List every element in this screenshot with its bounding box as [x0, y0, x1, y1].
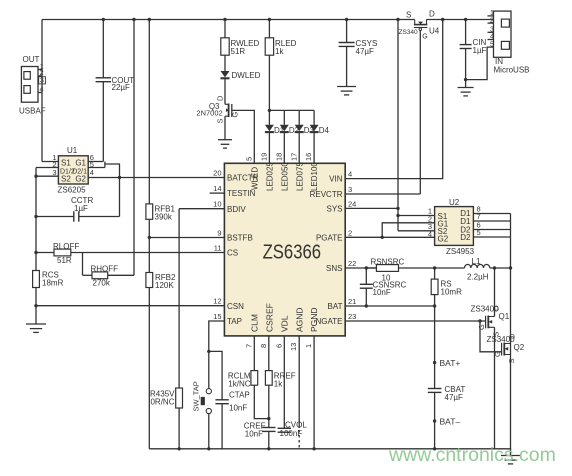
- switch SW_TAP: [206, 389, 211, 394]
- wire SW_TAP to bottom rail: [208, 414, 210, 449]
- resistor RSNSRC 10: [376, 265, 398, 272]
- pin 23 NGATE wire: [345, 320, 486, 322]
- wire top rail right of U4: [427, 19, 494, 21]
- svg-text:2N7002: 2N7002: [196, 109, 222, 118]
- svg-text:21: 21: [348, 297, 356, 306]
- svg-text:2.2µH: 2.2µH: [467, 273, 489, 282]
- connector MicroUSB IN: [494, 11, 512, 57]
- svg-text:AGND: AGND: [294, 307, 304, 332]
- node rail-RLED: [268, 18, 271, 21]
- svg-text:SNS: SNS: [326, 264, 342, 273]
- wire RFB1 to RFB2: [148, 219, 150, 272]
- wire LED bus drop D4: [313, 110, 315, 124]
- node BAT-: [433, 419, 436, 422]
- wire D2 to chip pin: [283, 132, 285, 163]
- wire U1 pin1 to USB line: [42, 161, 58, 163]
- resistor R435V 0R/NC: [176, 388, 183, 408]
- capacitor CSNSRC 10nF: [365, 268, 367, 284]
- resistor RCLM 1k/NC: [251, 371, 258, 386]
- node rail-CIN: [464, 18, 467, 21]
- pin 14 TESTIN stub: [210, 192, 225, 194]
- node U2 pin1 junction: [396, 214, 399, 217]
- wire U2 drains vertical: [510, 214, 512, 449]
- ground Q3: [218, 139, 232, 141]
- node NGATE junction: [478, 319, 481, 322]
- svg-text:10nF: 10nF: [245, 429, 263, 438]
- wire gate branch to CCTR: [105, 164, 120, 217]
- svg-text:D: D: [216, 95, 225, 101]
- svg-text:19: 19: [260, 153, 269, 161]
- pin 4 MicroUSB: [488, 39, 494, 41]
- svg-text:16: 16: [304, 153, 313, 161]
- wire NGATE down to Q2 gate: [480, 321, 502, 352]
- wire LED bus drop D3: [298, 110, 300, 124]
- node CSNSRC tap: [365, 266, 368, 269]
- capacitor CBAT 47uF: [428, 388, 442, 390]
- svg-text:BAT–: BAT–: [440, 417, 461, 427]
- node SYS junction: [396, 207, 399, 210]
- svg-text:ZS6366: ZS6366: [263, 241, 322, 264]
- dual-pmos U2 ZS4953: [435, 207, 474, 246]
- dual-mosfet U1 ZS6205: [58, 156, 88, 184]
- wire COUT to U1 pin6: [102, 82, 104, 162]
- svg-text:BAT: BAT: [328, 302, 343, 311]
- pin 22 SNS wire: [345, 267, 376, 269]
- svg-text:5: 5: [244, 157, 253, 161]
- svg-text:WLED: WLED: [251, 167, 260, 190]
- svg-text:51R: 51R: [231, 47, 246, 56]
- svg-text:RSNSRC: RSNSRC: [371, 258, 405, 267]
- svg-text:LED050: LED050: [280, 162, 289, 191]
- pin 8 U2 wire: [473, 213, 510, 215]
- svg-text:4: 4: [428, 230, 432, 239]
- svg-text:U2: U2: [449, 198, 460, 207]
- capacitor CCTR 1uF: [73, 211, 75, 221]
- capacitor CSYS 47uF: [339, 42, 355, 44]
- svg-text:10mR: 10mR: [441, 287, 463, 296]
- wire L1 to Q1 drain node: [490, 267, 511, 269]
- svg-text:G2: G2: [75, 174, 86, 183]
- svg-text:3: 3: [348, 185, 352, 194]
- wire Q3 source to ground: [224, 116, 226, 140]
- pin 13 AGND wire: [298, 336, 300, 428]
- svg-text:D4: D4: [319, 126, 330, 135]
- svg-text:CTAP: CTAP: [229, 391, 250, 400]
- pin 10 BDIV wire: [179, 208, 224, 210]
- pin 2 USBAF: [38, 75, 42, 77]
- svg-text:G: G: [422, 34, 427, 41]
- svg-text:18: 18: [274, 153, 283, 161]
- svg-text:23: 23: [348, 312, 356, 321]
- pin 12 CSN wire: [36, 305, 224, 307]
- nmos Q1 ZS3400: [488, 317, 494, 328]
- wire Q1 source down: [494, 327, 496, 449]
- wire rail to RHOFF vertical: [133, 20, 135, 276]
- svg-text:S1: S1: [61, 158, 71, 167]
- connector USBAF OUT: [21, 67, 38, 103]
- svg-text:OUT: OUT: [23, 55, 40, 64]
- svg-text:3: 3: [490, 26, 494, 33]
- svg-text:1k: 1k: [274, 379, 283, 388]
- node rail-134: [132, 18, 135, 21]
- svg-text:13: 13: [289, 343, 298, 351]
- nmos Q2 ZS3400: [504, 344, 510, 355]
- pmos U4 ZS340x: [414, 20, 416, 25]
- wire pins5-6 tie: [104, 162, 106, 168]
- svg-text:3: 3: [52, 168, 56, 177]
- svg-text:www.cntronics.com: www.cntronics.com: [388, 444, 556, 466]
- svg-text:1k/NC: 1k/NC: [228, 379, 250, 388]
- pin 3 MicroUSB: [488, 31, 494, 33]
- svg-text:8: 8: [259, 344, 268, 348]
- wire RS bottom to BAT+: [434, 295, 436, 389]
- svg-text:2: 2: [490, 17, 494, 24]
- diode D4: [310, 125, 319, 131]
- capacitor CREF 10nF: [262, 427, 275, 429]
- wire junction to MicroUSB pin5: [466, 47, 494, 80]
- wire Q1 drain: [494, 268, 496, 317]
- pin 1 USBAF: [38, 69, 42, 71]
- node rail-SYS vertical: [396, 18, 399, 21]
- node rail-COUT: [102, 18, 105, 21]
- pin 3 USBAF: [38, 82, 42, 84]
- svg-text:47µF: 47µF: [356, 47, 375, 56]
- pin 1 U2 wire: [398, 215, 435, 217]
- svg-text:U4: U4: [429, 27, 440, 36]
- svg-text:MicroUSB: MicroUSB: [494, 66, 530, 75]
- svg-text:BAT+: BAT+: [440, 358, 461, 368]
- node BSTFB divider junction: [148, 236, 151, 239]
- svg-text:12: 12: [213, 297, 221, 306]
- pin 2 U1: [36, 167, 58, 169]
- pin 24 SYS wire: [345, 207, 398, 209]
- wire PGATE to U2 G1: [382, 223, 434, 238]
- wire RWLED to DWLED: [224, 55, 226, 71]
- pin 4 USBAF: [38, 92, 42, 94]
- svg-text:G: G: [230, 112, 239, 118]
- svg-text:390k: 390k: [155, 212, 173, 221]
- capacitor COUT 22uF: [96, 77, 111, 79]
- pin 7 U2 wire: [473, 220, 510, 222]
- svg-text:G2: G2: [438, 234, 449, 243]
- pin 6 U1: [88, 161, 103, 163]
- resistor RHOFF 270k: [92, 272, 108, 279]
- wire LED bus drop D2: [283, 110, 285, 124]
- pin 6 VDL wire to CVOL: [283, 336, 285, 428]
- svg-text:CSN: CSN: [227, 302, 244, 311]
- wire top VOUT rail: [42, 19, 415, 21]
- node LED bus: [268, 109, 271, 112]
- pin 3 REVCTR wire: [345, 193, 420, 195]
- svg-text:1: 1: [304, 344, 313, 348]
- wire RS top: [434, 268, 436, 279]
- pin 3 U1: [36, 175, 58, 177]
- svg-text:G: G: [493, 351, 502, 357]
- wire RLED to LED bus: [268, 55, 270, 110]
- wire LED bus: [269, 109, 314, 111]
- svg-text:D: D: [491, 305, 500, 311]
- svg-text:D: D: [429, 10, 435, 19]
- wire rail to CSYS: [346, 20, 348, 43]
- wire U4 gate to REVCTR: [419, 31, 421, 195]
- svg-text:LED100: LED100: [310, 162, 319, 191]
- node L1-Q1: [493, 266, 496, 269]
- svg-text:CSREF: CSREF: [265, 303, 275, 332]
- svg-text:Q1: Q1: [499, 312, 510, 321]
- svg-text:6: 6: [274, 344, 283, 348]
- resistor RFB1 390k: [146, 204, 153, 219]
- node junction G2 wire: [118, 176, 121, 179]
- svg-text:DWLED: DWLED: [232, 71, 261, 80]
- diode D3: [295, 125, 304, 131]
- wire RHOFF row: [83, 274, 93, 276]
- svg-text:24: 24: [348, 199, 356, 208]
- diode D1: [265, 125, 274, 131]
- wire rail to CIN: [465, 20, 467, 45]
- diode D2: [280, 125, 289, 131]
- pin 1 PGND wire: [313, 336, 315, 449]
- svg-text:22: 22: [348, 259, 356, 268]
- node SW_TAP bottom: [207, 447, 210, 450]
- wire CCTR row: [36, 216, 74, 218]
- capacitor CIN 1uF: [460, 44, 472, 46]
- node rail-RWLED: [223, 18, 226, 21]
- svg-text:L1: L1: [472, 257, 481, 266]
- wire D1 to chip pin: [268, 132, 270, 163]
- svg-text:CLM: CLM: [250, 314, 260, 332]
- svg-text:S: S: [406, 11, 411, 20]
- wire RCLM to CSREF line: [254, 385, 268, 418]
- svg-text:17: 17: [289, 153, 298, 161]
- svg-text:TAP: TAP: [227, 317, 242, 326]
- svg-text:CS: CS: [227, 249, 238, 258]
- wire bottom ground rail: [149, 448, 511, 450]
- svg-text:BSTFB: BSTFB: [227, 234, 253, 243]
- svg-text:4: 4: [490, 34, 494, 41]
- pin 2 PGATE wire: [345, 236, 434, 238]
- node BAT junction: [433, 304, 436, 307]
- svg-text:10nF: 10nF: [229, 404, 247, 413]
- ic ZS6366: [224, 163, 345, 336]
- wire LED bus drop D1: [268, 110, 270, 124]
- wire RFB2 to bottom rail: [148, 288, 150, 449]
- svg-text:9: 9: [217, 229, 221, 238]
- pin 5 U2 wire: [473, 236, 510, 238]
- node L1-U2 drains: [509, 266, 512, 269]
- svg-text:D1: D1: [460, 217, 471, 226]
- node RCLM-CSREF: [267, 417, 270, 420]
- svg-text:51R: 51R: [57, 256, 72, 265]
- wire SNS to CSNSRC: [366, 267, 376, 269]
- node rail-VIN: [441, 18, 444, 21]
- node U1 pin3 junction: [34, 175, 37, 178]
- resistor RCS 18mR: [33, 271, 40, 288]
- resistor RLOFF 51R: [54, 249, 71, 256]
- svg-text:20: 20: [213, 169, 221, 178]
- wire rail to SYS/U2 vertical: [397, 20, 399, 231]
- resistor RFB2 120K: [146, 273, 153, 288]
- wire R435V to bottom rail: [178, 408, 180, 449]
- wire CS row to chip pin 11: [36, 252, 54, 254]
- node BAT+: [433, 361, 436, 364]
- svg-text:BDIV: BDIV: [227, 205, 246, 214]
- pin 2 MicroUSB: [488, 22, 494, 24]
- node CSN junction on left bus: [34, 304, 37, 307]
- svg-text:LED025: LED025: [266, 162, 275, 191]
- svg-text:47µF: 47µF: [445, 393, 464, 402]
- pin 7 CLM wire to RCLM: [253, 336, 255, 371]
- node PGND bottom: [312, 447, 315, 450]
- capacitor CTAP 10nF: [215, 399, 228, 401]
- pin 21 BAT wire: [345, 305, 434, 307]
- svg-text:5: 5: [477, 228, 481, 237]
- node rail-RFB1: [148, 18, 151, 21]
- wire D3 to chip pin: [298, 132, 300, 163]
- transistor Q3 2N7002: [225, 104, 229, 116]
- wire rail to RLED: [268, 20, 270, 38]
- svg-text:4: 4: [90, 168, 94, 177]
- resistor RS 10mR: [431, 279, 438, 295]
- wire COUT from rail: [102, 20, 104, 78]
- wire CTAP to bottom rail: [221, 404, 223, 449]
- node left bus CCTR: [34, 215, 37, 218]
- svg-text:5: 5: [490, 41, 494, 48]
- svg-text:2: 2: [348, 228, 352, 237]
- svg-text:22µF: 22µF: [112, 83, 131, 92]
- wire CBAT to BAT-: [434, 392, 436, 448]
- wire RSNSRC to RS junction: [399, 267, 435, 269]
- svg-text:10nF: 10nF: [373, 288, 391, 297]
- node CSNSRC-BAT: [365, 304, 368, 307]
- resistor RLED 1k: [265, 38, 273, 55]
- svg-text:18mR: 18mR: [42, 279, 64, 288]
- ground bottom right: [510, 449, 512, 456]
- inductor L1 2.2uH: [465, 264, 490, 268]
- svg-text:ZS4953: ZS4953: [446, 247, 475, 256]
- pin 1 MicroUSB: [488, 15, 494, 17]
- wire RLOFF branch down: [82, 253, 84, 276]
- node TAP branch: [207, 350, 210, 353]
- svg-text:14: 14: [213, 184, 221, 193]
- wire USB vertical to rail and U1 pin1: [41, 20, 43, 162]
- pin 3 U2 wire: [398, 230, 435, 232]
- wire rail to RWLED: [224, 20, 226, 38]
- pin 6 U2 wire: [473, 229, 510, 231]
- node rail-CSYS: [345, 18, 348, 21]
- wire rail to RFB1: [148, 20, 150, 204]
- led DWLED: [221, 71, 230, 77]
- svg-text:S: S: [507, 358, 516, 363]
- wire CIN to ground junction: [465, 49, 467, 88]
- svg-text:D2: D2: [460, 233, 471, 242]
- node SNS-RS: [433, 266, 436, 269]
- pin 8 CSREF wire to RREF: [268, 336, 270, 371]
- wire Q3 gate to WLED pin: [232, 110, 255, 163]
- resistor RWLED 51R: [221, 38, 229, 55]
- svg-text:1: 1: [490, 10, 494, 17]
- svg-text:120K: 120K: [155, 281, 174, 290]
- svg-text:VDL: VDL: [279, 315, 289, 332]
- ground left bus: [26, 323, 46, 325]
- svg-text:15: 15: [213, 312, 221, 321]
- svg-text:7: 7: [244, 344, 253, 348]
- wire CSYS to ground: [346, 46, 348, 86]
- svg-text:ZS6205: ZS6205: [58, 186, 87, 195]
- svg-text:PGND: PGND: [309, 307, 319, 332]
- svg-text:NGATE: NGATE: [316, 317, 343, 326]
- svg-text:G: G: [477, 324, 486, 330]
- svg-text:RLOFF: RLOFF: [53, 242, 79, 251]
- pin 20 BATCTR wire to U1 G2: [88, 177, 224, 179]
- svg-text:SYS: SYS: [326, 205, 342, 214]
- wire TAP to CTAP: [209, 351, 222, 399]
- svg-text:D: D: [508, 333, 517, 339]
- svg-text:4: 4: [348, 170, 352, 179]
- svg-text:G1: G1: [75, 158, 86, 167]
- svg-text:SW_TAP: SW_TAP: [192, 381, 201, 411]
- resistor RREF 1k: [265, 371, 272, 386]
- svg-text:PGATE: PGATE: [316, 233, 343, 242]
- node CREF bottom: [267, 447, 270, 450]
- node left bus RLOFF: [34, 251, 37, 254]
- wire BDIV vertical to R435V: [178, 209, 180, 388]
- wire CREF to bottom rail: [268, 431, 270, 448]
- wire rail to VIN pin: [345, 20, 443, 179]
- pin 5 U1: [88, 167, 105, 169]
- svg-text:S: S: [216, 118, 225, 123]
- svg-text:0R/NC: 0R/NC: [150, 398, 174, 407]
- wire DWLED to Q3 drain: [224, 78, 226, 104]
- svg-text:1k: 1k: [275, 47, 284, 56]
- ground CSYS: [337, 86, 356, 88]
- svg-text:1µF: 1µF: [473, 46, 487, 55]
- svg-text:270k: 270k: [93, 279, 111, 288]
- wire left bus from U1 pin2 down: [35, 168, 37, 325]
- svg-text:LED075: LED075: [295, 162, 304, 191]
- pin 9 BSTFB wire: [149, 237, 224, 239]
- node CIN ground junction: [464, 78, 467, 81]
- node PGATE branch: [381, 236, 384, 239]
- node R435V bottom: [177, 447, 180, 450]
- svg-text:S2: S2: [61, 174, 71, 183]
- ground CIN: [458, 87, 474, 89]
- wire to L1: [435, 267, 465, 269]
- node battery bottom rail: [433, 447, 436, 450]
- svg-text:ZS340: ZS340: [399, 29, 419, 36]
- wire D4 to chip pin: [313, 132, 315, 163]
- svg-text:11: 11: [214, 244, 222, 253]
- svg-text:RHOFF: RHOFF: [91, 264, 119, 273]
- svg-text:U1: U1: [67, 146, 78, 155]
- capacitor CVOL 100nF: [278, 427, 291, 429]
- svg-text:1µF: 1µF: [74, 204, 88, 213]
- svg-text:10: 10: [213, 200, 221, 209]
- svg-text:VIN: VIN: [329, 175, 343, 184]
- svg-text:Q2: Q2: [514, 343, 525, 352]
- wire RREF to CREF: [268, 385, 270, 427]
- pin 15 TAP wire: [209, 321, 225, 389]
